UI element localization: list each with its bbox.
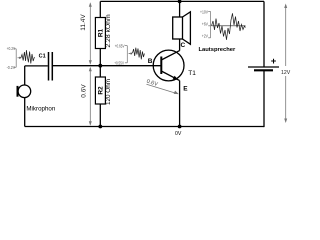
wire mic top (24, 66, 26, 85)
svg-text:E: E (183, 86, 188, 93)
wire bottom rail (25, 126, 264, 128)
node R2 ground junction (98, 125, 102, 129)
12V measurement arrow (284, 4, 287, 124)
0.6V measurement (B to E) (146, 79, 179, 94)
svg-text:+10V: +10V (200, 9, 209, 14)
wire R2 bottom (99, 104, 101, 127)
svg-text:0.6V: 0.6V (80, 84, 87, 98)
capacitor C1 (48, 52, 50, 81)
collector diagonal (161, 51, 179, 60)
svg-text:0V: 0V (175, 131, 182, 137)
svg-text:T1: T1 (188, 70, 196, 77)
resistor R1 (95, 18, 105, 49)
battery 12V short plate (254, 69, 273, 71)
mic signal arrow (18, 57, 21, 59)
emitter diagonal (161, 71, 179, 81)
wire R1 top (99, 1, 101, 17)
resistor R2 (95, 77, 105, 104)
mic input signal waveform (21, 50, 35, 63)
base signal waveform (133, 48, 145, 60)
wire mic bottom (24, 98, 26, 127)
11.4V measurement arrow (89, 2, 92, 65)
speaker signal bracket (208, 12, 210, 38)
svg-text:2.28 kOhm: 2.28 kOhm (105, 14, 112, 48)
wire speaker top (179, 1, 181, 17)
node base junction (98, 64, 102, 68)
svg-text:C: C (181, 42, 186, 49)
speaker output waveform (212, 13, 246, 40)
speaker output waveform axis (212, 25, 246, 27)
wire top rail (100, 0, 264, 2)
wire base right (C1 to transistor base) (53, 65, 161, 67)
wire R1 bottom (99, 49, 101, 66)
svg-text:B: B (148, 58, 153, 65)
base bar (160, 57, 162, 75)
svg-text:120 Ohm: 120 Ohm (105, 79, 112, 105)
svg-text:+0.65V: +0.65V (115, 44, 125, 49)
loudspeaker horn (183, 12, 191, 45)
svg-text:11.4V: 11.4V (80, 14, 87, 31)
base signal arrow (129, 53, 133, 55)
base signal bracket (125, 46, 127, 63)
mic signal bracket (14, 49, 16, 68)
emitter arrowhead (173, 76, 179, 80)
svg-text:Mikrophon: Mikrophon (26, 105, 55, 112)
svg-text:Lautsprecher: Lautsprecher (199, 47, 236, 53)
svg-text:+: + (271, 56, 277, 67)
svg-text:R1: R1 (98, 28, 105, 37)
svg-text:+0.55V: +0.55V (114, 61, 124, 66)
svg-text:+6V: +6V (202, 22, 209, 27)
0.6V measurement arrow (across R2) (89, 67, 92, 126)
wire emitter (179, 81, 181, 127)
svg-text:C1: C1 (39, 54, 46, 60)
wire battery top (263, 1, 265, 67)
svg-text:+2V: +2V (202, 34, 209, 39)
wire collector (179, 39, 181, 51)
transistor T1 (153, 50, 184, 81)
microphone (18, 85, 31, 98)
svg-text:R2: R2 (98, 86, 105, 95)
svg-text:+0.2V: +0.2V (7, 46, 16, 51)
node emitter ground junction (178, 125, 182, 129)
node speaker rail junction (178, 0, 182, 3)
wire base left (mic to C1) (25, 65, 48, 67)
svg-text:-0.2V: -0.2V (7, 65, 16, 70)
svg-text:12V: 12V (281, 70, 291, 76)
battery 12V long plate (248, 66, 279, 68)
wire R2 top (99, 66, 101, 77)
wire battery bottom (263, 71, 265, 128)
loudspeaker driver rect (173, 17, 183, 39)
